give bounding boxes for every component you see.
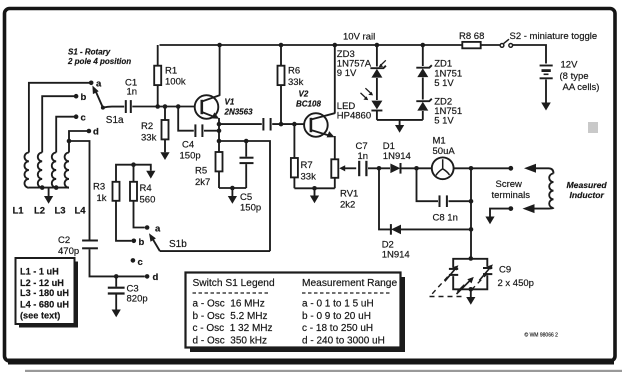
arrow screw terminal bottom [523,204,535,213]
zener ZD2 1N751 [416,97,462,127]
svg-text:9 1V: 9 1V [337,68,357,79]
node screw terminal top [508,166,513,171]
wire V2 base [294,123,309,125]
inductor L3 [52,153,66,217]
svg-text:(see text): (see text) [20,311,60,321]
svg-text:C4: C4 [182,140,194,151]
capacitor C7 [356,141,380,176]
node rail-V1 collector junction [217,43,222,48]
svg-text:b: b [81,92,87,103]
svg-text:b - 0 9 to 20 uH: b - 0 9 to 20 uH [302,311,371,322]
resistor R6 [278,45,304,124]
node C5 top junction [244,139,249,144]
wire ZD3 branch [376,45,378,120]
arrow screw terminal top [524,164,554,174]
node R7 top junction [292,122,297,127]
switch S1a [74,79,124,138]
svg-text:L2: L2 [34,206,45,217]
zener ZD3 1N757A [337,49,386,79]
svg-text:c: c [81,113,86,124]
capacitor C1 [125,78,137,114]
node R5-C5 ground junction [230,186,235,191]
svg-text:AA cells): AA cells) [563,82,600,93]
svg-text:Switch S1 Legend: Switch S1 Legend [193,278,275,289]
svg-text:5 1V: 5 1V [434,78,454,89]
wire inductor select a [29,83,91,153]
node D1 anode junction [377,166,382,171]
node D2 right junction [469,227,474,232]
label S1 rotary [67,48,131,67]
svg-text:V1: V1 [225,98,235,107]
svg-text:R7: R7 [301,160,313,171]
dashed gang link C9 [430,273,488,296]
svg-text:a: a [96,79,102,90]
LED HP4860 [337,88,383,121]
svg-text:820p: 820p [127,294,148,305]
diode D1 1N914 [379,141,431,174]
node C8 right junction [469,199,474,204]
wire R5 C5 bottoms [219,187,246,189]
svg-text:L4: L4 [75,206,87,217]
wire inductor select d [69,131,89,153]
wire battery negative [545,80,547,103]
ground R3 R4 [146,171,155,179]
wire M1 to screw terminal [454,167,511,169]
svg-text:L3 - 180 uH: L3 - 180 uH [20,288,69,298]
node R4 top junction [131,162,136,167]
node C4 base junction [176,104,181,109]
wire screw terminal bottom to ground [490,209,511,217]
node rail-ZD1 junction [421,43,426,48]
svg-text:V2: V2 [299,90,309,99]
svg-text:b - Osc 5.2 MHz: b - Osc 5.2 MHz [193,311,268,322]
svg-text:33k: 33k [288,77,304,88]
node emitter-C4 junction [217,128,222,133]
potentiometer RV1 2k2 [331,159,358,210]
svg-text:a: a [155,224,161,235]
inductor measured [533,174,607,209]
capacitor C5 [240,141,262,214]
diode D2 1N914 [382,224,471,260]
svg-text:1N914: 1N914 [382,250,410,261]
node L3 common junction [54,185,59,190]
svg-text:S1b: S1b [169,239,187,250]
node emitter-coupling junction [217,122,222,127]
ground C3 [112,310,121,318]
node R2 base junction [163,104,168,109]
svg-text:C2: C2 [58,235,70,246]
svg-text:RV1: RV1 [340,189,358,200]
resistor R1 [154,45,186,107]
svg-text:Inductor: Inductor [570,190,605,200]
svg-text:2k2: 2k2 [340,200,355,211]
transistor V1 2N3563 [195,95,253,119]
capacitor coupling V1-V2 [219,118,294,131]
resistor R8 [459,31,484,48]
ground screw terminal [485,217,494,225]
wire inductor commons [29,187,69,189]
svg-text:2 x 450p: 2 x 450p [498,278,534,289]
svg-text:R6: R6 [288,66,300,77]
svg-text:S1 - Rotary: S1 - Rotary [68,48,111,57]
svg-text:© WM 98066 2: © WM 98066 2 [525,332,559,339]
svg-text:470p: 470p [58,246,79,257]
svg-text:d - 240 to 3000 uH: d - 240 to 3000 uH [302,336,385,347]
wire V1 collector to rail [219,45,221,96]
svg-text:150p: 150p [180,151,201,162]
node rail-V2 collector junction [333,43,338,48]
ground battery [541,103,551,111]
battery B1 12V [540,60,600,94]
wire R4 to contact a [134,201,145,228]
resistor R4 [130,165,155,206]
variable capacitor C9 [445,259,534,294]
node rail-ZD3 junction [375,43,380,48]
wire zener block bottom [377,119,423,121]
switch S2 [500,31,597,47]
svg-text:S2 - miniature toggle: S2 - miniature toggle [510,31,598,42]
resistor R7 [291,124,316,188]
svg-text:d - Osc 350 kHz: d - Osc 350 kHz [193,336,267,347]
svg-text:b: b [139,237,145,248]
wire R3 R4 tops [116,165,151,182]
svg-text:R5: R5 [195,166,207,177]
node C3 top junction [114,274,119,279]
capacitor C2 [58,235,98,257]
svg-text:R2: R2 [141,121,153,132]
svg-text:150p: 150p [240,203,261,214]
meter M1 50uA [432,136,456,180]
inductor L1 [13,153,29,217]
wire C1 to V1 base [132,106,200,108]
svg-text:HP4860: HP4860 [337,111,371,122]
svg-text:Screw: Screw [496,179,523,190]
wire ZD1 ZD2 branch [422,45,424,120]
wire V1 emitter line [218,118,220,141]
svg-text:50uA: 50uA [433,146,456,157]
wire R7 RV1 bottoms [294,178,334,189]
svg-text:a - Osc 16 MHz: a - Osc 16 MHz [193,299,265,310]
node screw terminal bottom [508,206,513,211]
svg-text:S1a: S1a [106,115,124,126]
svg-text:2N3563: 2N3563 [224,108,254,117]
resistor R3 [93,182,120,205]
label screw terminals [492,179,531,201]
wire S1b pivot to feedback [160,250,270,252]
switch S1b [131,224,188,284]
svg-text:R8 68: R8 68 [459,31,484,42]
svg-text:C9: C9 [499,265,511,276]
svg-text:33k: 33k [141,133,157,144]
node C9 bottom junction [469,287,474,292]
wire 10V rail [160,32,547,64]
capacitor C4 [178,107,219,162]
zener ZD1 1N751 [416,59,462,90]
node R7-RV1 ground junction [312,186,317,191]
svg-text:1n: 1n [127,87,138,98]
svg-text:C8 1n: C8 1n [433,213,458,224]
wire emitter to S1b feedback [219,141,270,251]
svg-text:1n: 1n [358,151,369,162]
svg-text:1k: 1k [97,193,107,204]
svg-text:R1: R1 [165,66,177,77]
wire V2 collector to rail [334,45,336,114]
node rail-R6 junction [279,43,284,48]
svg-text:2 pole 4 position: 2 pole 4 position [67,57,131,66]
ground R5 C5 [228,188,237,204]
node R1 base junction [155,104,160,109]
capacitor C3 [108,276,148,309]
svg-text:2k7: 2k7 [195,177,210,188]
wire inductor select c [56,117,76,153]
wire S1a pivot to C1 [103,107,124,108]
svg-text:Measurement Range: Measurement Range [302,278,397,289]
node R6 bottom junction [279,122,284,127]
svg-text:(8 type: (8 type [560,71,589,82]
ground C9 [466,289,475,305]
node meter output junction [469,166,474,171]
svg-text:c - Osc 1 32 MHz: c - Osc 1 32 MHz [193,323,273,334]
svg-text:a - 0 1 to 1 5 uH: a - 0 1 to 1 5 uH [302,299,374,310]
capacitor C8 [433,195,472,223]
svg-text:L3: L3 [55,206,66,217]
svg-text:R4: R4 [140,183,152,194]
svg-text:c - 18 to 250 uH: c - 18 to 250 uH [302,323,373,334]
svg-text:d: d [153,272,159,283]
svg-text:L1 - 1 uH: L1 - 1 uH [20,267,59,277]
svg-text:12V: 12V [561,60,579,71]
svg-text:L2 - 12 uH: L2 - 12 uH [20,278,64,288]
wire D2 branch [379,168,390,229]
ground inductor commons [44,188,53,204]
legend box L values [16,258,79,328]
inductor L4 [65,153,87,217]
svg-text:5 1V: 5 1V [434,116,454,127]
svg-text:c: c [138,257,143,268]
svg-text:L1: L1 [13,206,25,217]
ground R2 [160,152,169,160]
inductor L2 [34,153,45,217]
svg-text:d: d [93,127,99,138]
node L2 common junction [40,185,45,190]
wire C2 to contact d [90,249,145,276]
svg-text:BC108: BC108 [296,100,321,109]
node C9 top junction [469,256,474,261]
ground R7 RV1 [310,188,319,203]
wire meter node to C9 [470,168,472,258]
svg-text:560: 560 [140,195,156,206]
node L4 tap junction [67,139,72,144]
legend box switch S1 [186,273,406,353]
wire C8 branch [417,168,439,201]
transistor V2 BC108 [296,90,335,138]
resistor R5 [195,141,223,188]
svg-text:R3: R3 [93,182,105,193]
svg-text:M1: M1 [433,136,446,147]
svg-text:terminals: terminals [492,190,531,201]
resistor R2 [141,107,169,153]
svg-text:L4 - 680 uH: L4 - 680 uH [20,300,69,310]
svg-text:Measured: Measured [567,180,608,190]
node C8 top junction [414,166,419,171]
ground zener block [395,120,404,133]
node emitter-R5 junction [217,139,222,144]
wire V2 emitter to RV1 [334,136,336,159]
wire R3 to contact b [116,201,132,241]
wire tap to C2 [69,141,90,240]
svg-text:33k: 33k [301,172,317,183]
svg-text:100k: 100k [165,77,186,88]
svg-text:1N914: 1N914 [383,151,411,162]
wire inductor select b [42,96,76,152]
svg-text:C5: C5 [240,192,252,203]
svg-text:10V rail: 10V rail [343,32,375,43]
